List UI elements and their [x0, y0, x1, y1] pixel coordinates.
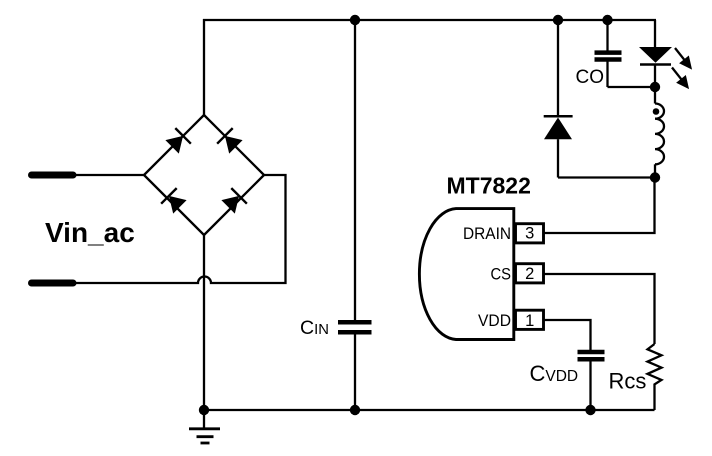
pin 3 box — [516, 224, 544, 243]
node CO top — [602, 15, 612, 25]
svg-text:CO: CO — [576, 67, 605, 88]
resistor RCS — [648, 344, 662, 410]
pin 1 box — [516, 310, 544, 329]
wire D1 to inductor node — [558, 176, 655, 178]
wire lower input with hop — [72, 175, 286, 283]
LED D2 — [639, 47, 672, 87]
node CIN bottom — [350, 405, 360, 415]
node inductor bottom — [650, 172, 660, 182]
wire CS connection — [543, 274, 655, 344]
wire bottom rail — [204, 409, 655, 411]
diode D-bottom-left — [161, 188, 188, 215]
bridge rectifier edges — [144, 115, 264, 235]
svg-text:2: 2 — [525, 265, 534, 283]
svg-text:MT7822: MT7822 — [447, 173, 531, 199]
ground — [189, 410, 220, 443]
svg-text:Rcs: Rcs — [609, 369, 647, 394]
diode D-top-left — [164, 128, 191, 155]
terminal input lower — [32, 280, 74, 287]
capacitor CVDD — [578, 352, 605, 410]
inductor L1 — [655, 87, 664, 178]
pin 2 box — [516, 264, 544, 283]
svg-text:CS: CS — [491, 265, 512, 283]
diode D1 freewheel — [544, 20, 573, 178]
wire bridge bottom to ground rail — [203, 235, 205, 410]
wire right edge to LED — [654, 20, 656, 47]
wire top rail — [203, 19, 656, 21]
node LED bottom — [650, 82, 660, 92]
IC U1 MT7822 body — [419, 209, 513, 340]
svg-text:VDD: VDD — [478, 312, 511, 330]
svg-text:DRAIN: DRAIN — [463, 225, 511, 243]
node CVDD bottom — [585, 405, 595, 415]
node D1 top — [553, 15, 563, 25]
wire upper input — [72, 174, 144, 176]
terminal input upper — [32, 172, 74, 179]
inductor polarity dot — [653, 108, 660, 115]
node ground junction — [199, 405, 209, 415]
svg-text:1: 1 — [525, 312, 534, 330]
diode D-bottom-right — [220, 188, 247, 215]
wire DRAIN connection — [543, 178, 655, 234]
LED arrow 2 — [667, 64, 694, 93]
diode D-top-right — [217, 128, 244, 155]
node CIN top — [350, 15, 360, 25]
wire bridge top to rail — [203, 19, 205, 116]
capacitor CO — [595, 20, 656, 87]
svg-text:Vin_ac: Vin_ac — [45, 217, 135, 248]
capacitor CIN — [338, 20, 372, 410]
wire VDD connection — [543, 320, 591, 350]
LED arrow 1 — [670, 44, 697, 73]
svg-text:3: 3 — [525, 224, 534, 242]
